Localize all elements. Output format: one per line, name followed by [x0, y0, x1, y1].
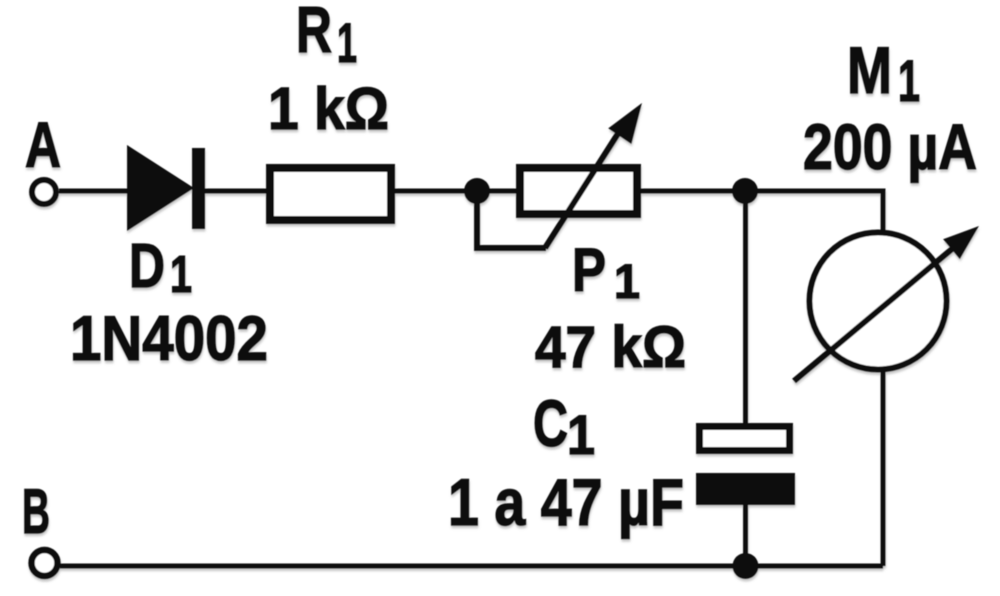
svg-text:M: M	[847, 33, 892, 107]
svg-text:47 kΩ: 47 kΩ	[535, 315, 686, 380]
svg-text:B: B	[22, 477, 50, 547]
svg-text:1: 1	[337, 11, 357, 74]
svg-text:P: P	[572, 236, 606, 304]
svg-text:200 µA: 200 µA	[803, 111, 977, 183]
svg-text:1: 1	[567, 403, 595, 466]
svg-text:1: 1	[898, 49, 920, 114]
svg-text:1: 1	[614, 256, 640, 309]
svg-text:A: A	[25, 109, 61, 181]
svg-text:D: D	[129, 232, 165, 301]
svg-text:1 kΩ: 1 kΩ	[268, 76, 389, 142]
svg-text:1 a 47 µF: 1 a 47 µF	[448, 465, 684, 539]
svg-text:C: C	[533, 386, 568, 460]
svg-text:R: R	[296, 0, 332, 66]
svg-text:1: 1	[170, 246, 192, 304]
svg-text:1N4002: 1N4002	[70, 304, 268, 374]
